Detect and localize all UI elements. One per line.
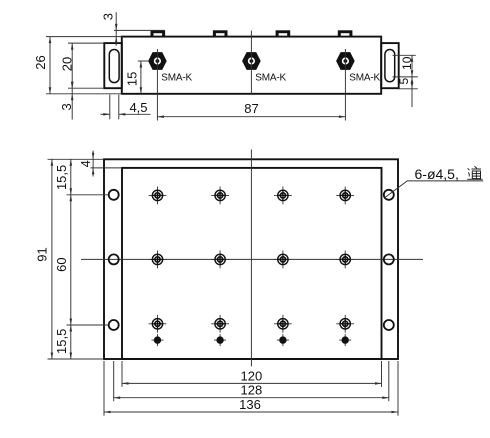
front view: vertical centerline — [250, 150, 252, 367]
front view: mounting plate outline — [104, 159, 398, 359]
extension line: plate bottom, left — [48, 358, 105, 360]
extension line: plate top, left — [48, 158, 105, 160]
dimension 120: body width — [122, 382, 382, 384]
mounting hole right row 3 — [384, 320, 394, 330]
dimension 4: body offset from plate top — [92, 151, 94, 177]
cover screw row 2 col 2 — [211, 251, 229, 269]
dimension 91: plate height — [51, 159, 53, 359]
extension line: flange top, left — [68, 42, 104, 44]
connector J1 center contact ring — [154, 57, 161, 64]
cover screw row 2 col 3 — [274, 251, 292, 269]
top view: SMA-K connector J2 hex nut — [242, 52, 261, 70]
svg-text:20: 20 — [60, 57, 75, 71]
extension line: body bottom, left — [46, 93, 122, 95]
svg-text:15,5: 15,5 — [54, 329, 69, 354]
svg-text:6-ø4,5,: 6-ø4,5, — [415, 166, 459, 182]
extension line: hole left center, below — [113, 361, 115, 401]
svg-text:SMA-K: SMA-K — [161, 72, 192, 83]
top view: SMA-K connector J1 hex nut — [148, 52, 167, 70]
cover screw row 1 col 2 — [211, 187, 229, 205]
svg-text:4: 4 — [79, 160, 93, 167]
top view: right flange slot (4.5x10 oblong) — [385, 50, 395, 82]
top view: cover screw tab 2 — [213, 30, 228, 37]
centerline of connector J3 — [344, 49, 346, 121]
top view: cover screw tab 1 — [151, 30, 166, 37]
dimension 3: flange to body bottom — [71, 82, 74, 89]
connector J3 center contact ring — [342, 57, 349, 64]
connector J2 center contact ring — [248, 57, 255, 64]
front view: horizontal centerline — [81, 258, 423, 260]
cover screw row 3 col 1 — [149, 315, 167, 333]
dimension 87: connector spacing — [157, 116, 345, 118]
cover screw row 3 col 2 — [211, 315, 229, 333]
mounting hole left row 3 — [109, 320, 119, 330]
top view: left flange slot (4.5x10 oblong) — [109, 50, 119, 83]
svg-text:3: 3 — [59, 103, 74, 110]
cover screw row 1 col 4 — [336, 187, 354, 205]
centerline of connector J2 — [250, 31, 252, 94]
svg-text:87: 87 — [244, 101, 258, 116]
small pin col 2 — [214, 334, 226, 346]
cover screw row 2 col 1 — [149, 251, 167, 269]
svg-text:60: 60 — [54, 257, 69, 271]
svg-text:26: 26 — [33, 55, 48, 69]
mounting hole left row 2 — [109, 254, 119, 264]
extension line: flange bottom, left — [68, 87, 104, 89]
mounting hole left row 1 — [109, 190, 119, 200]
svg-text:SMA-K: SMA-K — [349, 72, 380, 83]
hand-drawn CJK glyph 通 (through) — [467, 166, 482, 179]
top view: right mounting flange — [381, 43, 399, 88]
mounting hole right row 2 — [384, 254, 394, 264]
svg-text:5: 5 — [397, 78, 411, 85]
cover screw row 3 col 3 — [274, 315, 292, 333]
extension line: body left, below — [121, 361, 123, 387]
top view: left mounting flange — [104, 43, 122, 88]
extension line: body top, left — [46, 36, 122, 38]
extension line: hole right center, below — [388, 361, 390, 401]
svg-text:91: 91 — [34, 247, 49, 261]
front view: body outline seen from front — [122, 168, 382, 359]
dimension 4,5: slot width — [109, 95, 111, 120]
dimension 136: plate width — [104, 411, 398, 413]
extension line: plate left, below — [103, 361, 105, 416]
svg-text:10: 10 — [400, 56, 414, 70]
top view: main body outline — [122, 37, 381, 94]
small pin col 4 — [339, 334, 351, 346]
dimension 3: cover tab height, top — [115, 12, 117, 46]
dimension 20: flange height — [71, 43, 73, 119]
svg-text:15: 15 — [125, 72, 140, 86]
svg-text:3: 3 — [101, 13, 116, 20]
extension line: hole row3 — [67, 324, 109, 326]
extension line: right slot bottom — [393, 76, 418, 78]
extension line: plate right, below — [397, 361, 399, 416]
extension line: right slot top — [393, 54, 416, 56]
svg-text:SMA-K: SMA-K — [255, 72, 286, 83]
small pin col 3 — [277, 334, 289, 346]
dimension 10: slot length — [411, 55, 413, 107]
svg-text:136: 136 — [239, 397, 261, 412]
top view: SMA-K connector J3 hex nut — [336, 52, 355, 70]
dimension 128: mounting hole spacing — [114, 397, 389, 399]
svg-text:15,5: 15,5 — [54, 165, 69, 190]
dimension 60: hole spacing — [70, 195, 73, 202]
cover screw row 1 col 3 — [274, 187, 292, 205]
dimension 15,5 bottom — [70, 325, 73, 332]
extension line: right flange bottom — [399, 88, 418, 90]
extension line: body right, below — [381, 361, 383, 387]
top view: cover screw tab 4 — [338, 30, 353, 37]
dimension 5: slot offset — [411, 77, 414, 84]
extension line: hole row1 — [67, 194, 109, 196]
centerline of connector J1 — [156, 49, 158, 121]
cover screw row 3 col 4 — [336, 315, 354, 333]
cover screw row 2 col 4 — [336, 251, 354, 269]
svg-text:128: 128 — [241, 383, 263, 398]
svg-text:4,5: 4,5 — [129, 100, 147, 115]
small pin col 1 — [152, 334, 164, 346]
leader line for hole callout — [385, 181, 483, 198]
dimension 26: body height — [49, 37, 51, 94]
top view: cover screw tab 3 — [276, 30, 291, 37]
dimension 15: connector height from bottom — [138, 60, 148, 62]
dimension 15,5 top — [70, 159, 72, 359]
svg-text:120: 120 — [241, 368, 263, 383]
cover screw row 1 col 1 — [149, 187, 167, 205]
mounting hole right row 1 — [384, 190, 394, 200]
